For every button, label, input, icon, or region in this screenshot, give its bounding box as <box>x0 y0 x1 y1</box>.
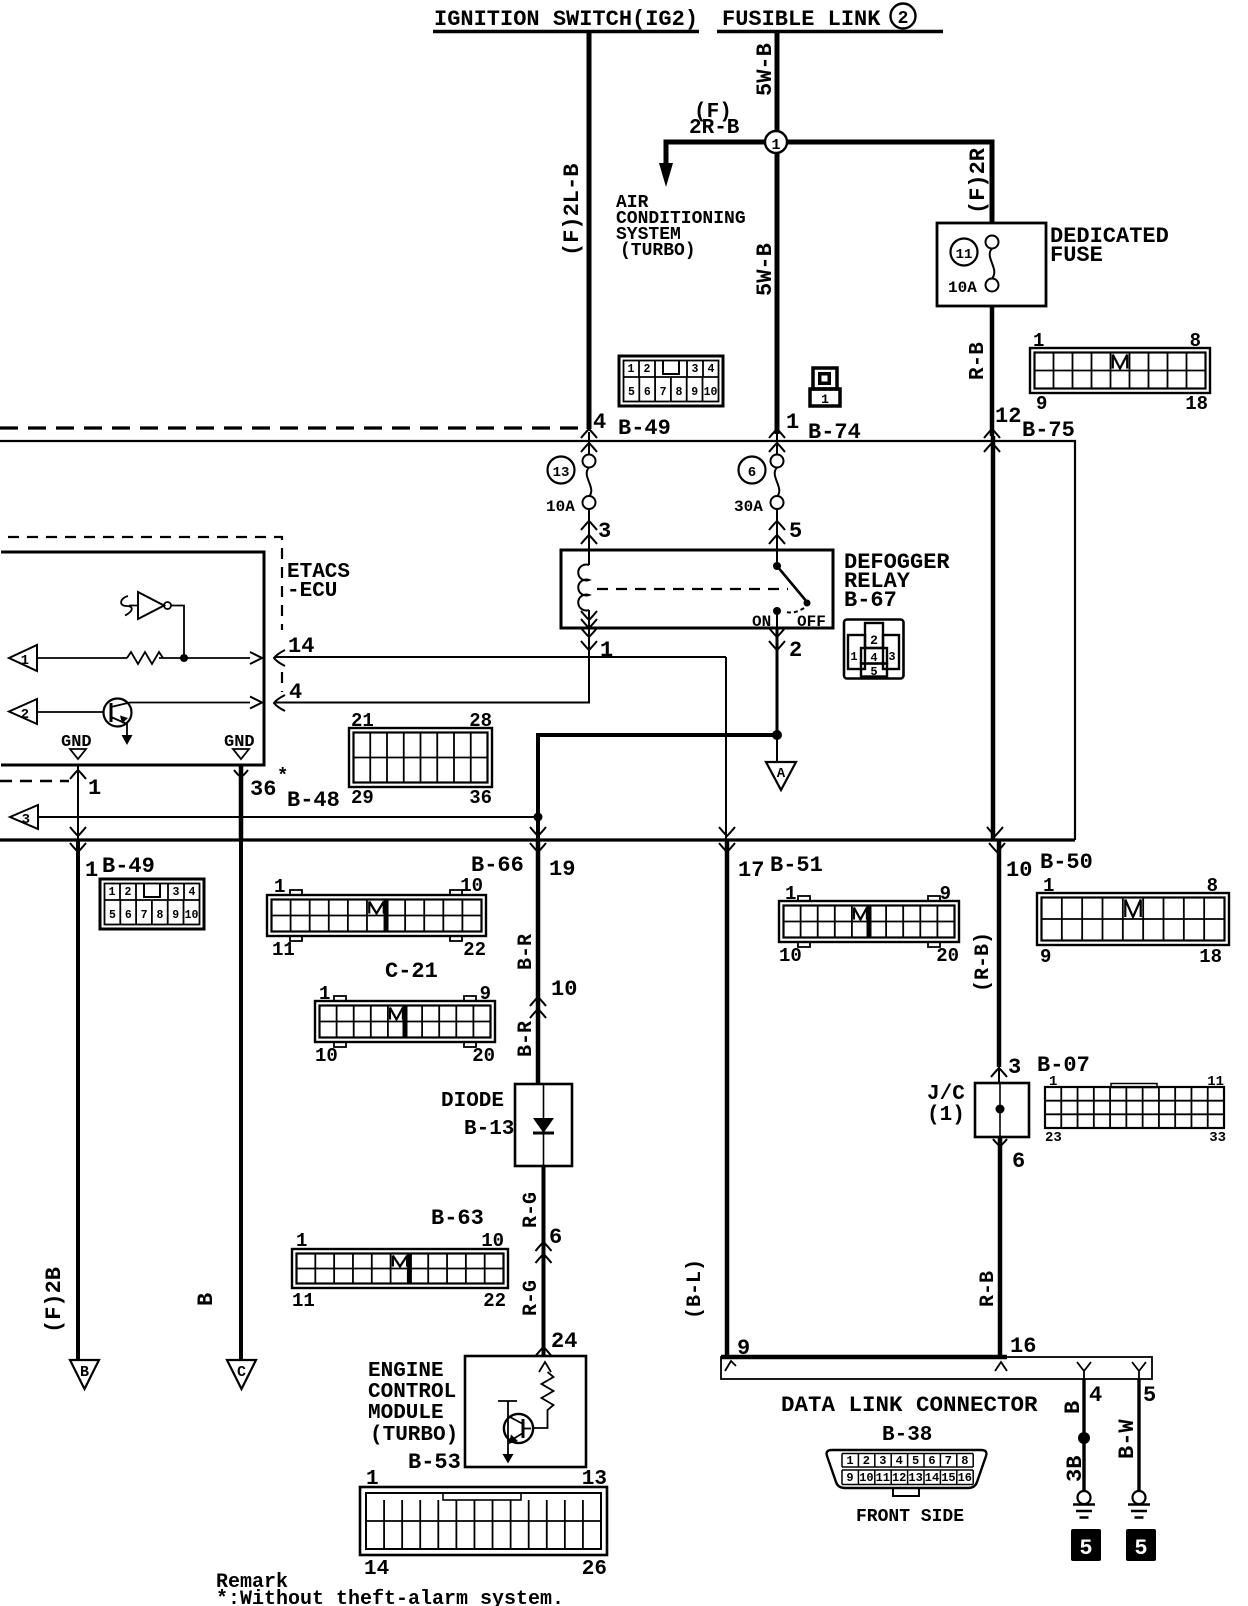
module ETACS-ECU box <box>1 552 264 765</box>
svg-text:5W-B: 5W-B <box>753 43 778 96</box>
ground GND right <box>224 733 255 759</box>
ground terminal circle right <box>1133 1491 1146 1504</box>
svg-text:2: 2 <box>898 9 909 29</box>
svg-text:2: 2 <box>863 1454 870 1468</box>
svg-text:5: 5 <box>628 386 635 399</box>
svg-text:10: 10 <box>859 1471 873 1485</box>
arrow up ETACS pin 1 <box>70 770 86 779</box>
svg-text:DIODE: DIODE <box>441 1090 504 1113</box>
svg-text:2: 2 <box>789 638 802 663</box>
svg-text:4: 4 <box>708 363 715 376</box>
junction dot relay pin2 <box>772 730 782 740</box>
diode B-13 box <box>515 1084 572 1166</box>
svg-text:14: 14 <box>364 1558 389 1581</box>
svg-text:B-51: B-51 <box>770 853 823 878</box>
svg-text:OFF: OFF <box>797 613 826 631</box>
svg-text:36: 36 <box>469 787 492 809</box>
resistor in ETACS <box>37 652 250 664</box>
wire from triangle 3 to junction <box>38 816 538 818</box>
svg-text:5W-B: 5W-B <box>753 243 778 296</box>
wire B-48 pin 36 down to C <box>239 840 243 1360</box>
wire R-G upper <box>542 1166 546 1356</box>
svg-text:R-G: R-G <box>520 1192 543 1228</box>
svg-text:7: 7 <box>141 909 148 922</box>
node triangle 3 input <box>10 805 38 829</box>
connector B-51 icon <box>779 896 959 947</box>
connector B-75 icon <box>1030 348 1210 393</box>
wire 5W-B below junction <box>775 153 780 434</box>
connector crossing pin 10 B-50 <box>987 436 1005 852</box>
svg-text:B-67: B-67 <box>844 588 897 613</box>
arrow into ECM <box>536 1347 552 1356</box>
label ETACS-ECU <box>287 561 350 603</box>
connector B-63 icon <box>292 1249 508 1288</box>
svg-text:-ECU: -ECU <box>287 580 337 603</box>
svg-text:B-13: B-13 <box>464 1118 514 1141</box>
svg-text:17: 17 <box>738 858 764 883</box>
wire 2R branch to dedicated fuse <box>787 142 992 223</box>
connector crossing pin 17 B-51 <box>719 827 735 852</box>
connector crossing pin 1 B-49 lower <box>70 827 86 852</box>
pin labels B-48 <box>351 710 492 809</box>
svg-text:DATA LINK CONNECTOR: DATA LINK CONNECTOR <box>781 1392 1038 1418</box>
svg-text:J/C: J/C <box>927 1083 965 1106</box>
svg-text:B: B <box>1061 1401 1086 1414</box>
node triangle B <box>70 1360 99 1389</box>
svg-text:(1): (1) <box>927 1104 965 1127</box>
node triangle 2 input <box>9 699 37 724</box>
svg-text:10: 10 <box>460 875 483 897</box>
svg-text:2: 2 <box>644 363 651 376</box>
wire 4 from ETACS to relay pin 1 <box>275 702 590 704</box>
wire long horizontal connector line upper <box>0 441 1075 840</box>
svg-text:1: 1 <box>85 858 98 883</box>
svg-text:(F)2B: (F)2B <box>42 1267 67 1333</box>
open arrow output 4 <box>250 697 262 709</box>
node triangle C <box>227 1360 256 1389</box>
pin labels B-63 <box>292 1230 506 1312</box>
pin labels B-66 <box>272 875 486 961</box>
svg-text:5: 5 <box>912 1454 919 1468</box>
svg-text:A: A <box>777 766 786 782</box>
connector crossing pin 19 B-66 <box>530 735 546 852</box>
junction dot ground wire <box>1078 1432 1090 1444</box>
pin labels B-53 <box>364 1468 607 1581</box>
svg-text:FRONT SIDE: FRONT SIDE <box>856 1507 964 1527</box>
svg-text:1: 1 <box>786 410 799 435</box>
connector crossing pin 10 C-21 <box>530 997 546 1018</box>
svg-text:23: 23 <box>1045 1130 1062 1146</box>
wire (R-B) to junction connector <box>997 840 1002 1067</box>
svg-text:19: 19 <box>549 857 575 882</box>
wire pin 14 net down at 726 <box>725 657 727 840</box>
wire ETACS pin 1 to connector <box>77 765 79 840</box>
svg-text:4: 4 <box>289 680 302 705</box>
connector crossing pin 3 relay <box>581 521 597 544</box>
wire ignition switch underline <box>433 30 699 34</box>
ground reference 5 left <box>1071 1529 1101 1561</box>
ground terminal circle left <box>1078 1491 1091 1504</box>
svg-text:11: 11 <box>876 1471 890 1485</box>
svg-text:B-38: B-38 <box>882 1424 932 1447</box>
svg-text:13: 13 <box>582 1468 607 1491</box>
svg-text:13: 13 <box>908 1471 922 1485</box>
svg-text:14: 14 <box>925 1471 939 1485</box>
pin labels B-07 <box>1045 1074 1226 1146</box>
svg-text:FUSIBLE LINK: FUSIBLE LINK <box>722 7 881 32</box>
fuse 6 30A <box>734 455 784 517</box>
svg-text:B-07: B-07 <box>1037 1053 1090 1078</box>
svg-text:6: 6 <box>748 465 756 481</box>
svg-text:B-63: B-63 <box>431 1206 484 1231</box>
open arrow output 14 <box>250 652 262 664</box>
svg-text:(R-B): (R-B) <box>972 932 995 992</box>
svg-text:10: 10 <box>779 945 802 967</box>
wire R-B to data link 16 <box>998 1137 1003 1357</box>
label DEDICATED FUSE <box>1050 224 1169 268</box>
svg-text:(B-L): (B-L) <box>684 1259 707 1319</box>
svg-text:B-50: B-50 <box>1040 850 1093 875</box>
svg-text:18: 18 <box>1185 393 1208 415</box>
connector crossing relay pin 1 <box>581 628 597 703</box>
svg-text:14: 14 <box>288 634 314 659</box>
svg-text:1: 1 <box>785 883 796 905</box>
svg-text:24: 24 <box>551 1329 577 1354</box>
node FUSIBLE LINK title <box>722 4 916 33</box>
wire relay pin2 to ground bus <box>538 735 777 840</box>
svg-text:B-74: B-74 <box>808 420 861 445</box>
wire fusible link underline <box>717 30 943 34</box>
svg-text:12: 12 <box>892 1471 906 1485</box>
connector B-74 icon <box>810 368 840 407</box>
wire 5W-B fusible link feed upper <box>775 33 780 131</box>
label Remark note <box>216 1571 564 1606</box>
svg-text:22: 22 <box>483 1290 506 1312</box>
svg-text:B-53: B-53 <box>408 1450 461 1475</box>
node triangle 1 input <box>9 645 37 671</box>
label J/C (1) <box>927 1083 965 1127</box>
node AIR CONDITIONING SYSTEM (TURBO) <box>616 193 746 261</box>
wire 14 from ETACS to data link branch <box>275 656 726 658</box>
wire fuse 6 to relay pin 5 <box>776 509 778 550</box>
wire to ground A <box>776 735 778 762</box>
svg-text:8: 8 <box>1207 875 1218 897</box>
svg-text:18: 18 <box>1199 946 1222 968</box>
pin labels C-21 <box>315 983 495 1067</box>
ground reference 5 right <box>1126 1529 1156 1561</box>
svg-text:5: 5 <box>789 519 802 544</box>
svg-text:6: 6 <box>1012 1149 1025 1174</box>
resistor and transistor inside ECM <box>498 1362 554 1464</box>
buffer gate with oscillator input <box>121 592 184 654</box>
svg-text:9: 9 <box>940 883 951 905</box>
connector crossing pin 12 B-75 <box>984 429 1000 452</box>
junction connector J/C (1) box <box>975 1083 1029 1137</box>
svg-text:12: 12 <box>995 404 1021 429</box>
pin labels B-50 <box>1040 875 1222 968</box>
svg-text:16: 16 <box>958 1471 972 1485</box>
svg-text:1: 1 <box>850 650 857 664</box>
wire B ground pin 4 <box>1082 1379 1085 1491</box>
svg-text:10: 10 <box>1006 858 1032 883</box>
svg-text:3: 3 <box>888 650 895 664</box>
entry arrow 14 <box>274 650 285 666</box>
svg-text:9: 9 <box>172 909 179 922</box>
connector B-67 icon <box>844 620 904 680</box>
connector crossing pin 1 B-74 <box>769 429 785 455</box>
svg-text:3: 3 <box>22 812 30 828</box>
pin labels B-51 <box>779 883 959 967</box>
svg-text:22: 22 <box>463 939 486 961</box>
svg-text:B: B <box>194 1293 219 1306</box>
svg-text:6: 6 <box>928 1454 935 1468</box>
relay internal dashed link <box>597 588 788 590</box>
svg-text:21: 21 <box>351 710 374 732</box>
relay defogger relay box B-67 <box>561 550 833 628</box>
svg-text:11: 11 <box>272 939 295 961</box>
svg-text:1: 1 <box>1043 875 1054 897</box>
svg-text:1: 1 <box>296 1230 307 1252</box>
wire B-W ground pin 5 <box>1137 1379 1140 1491</box>
ground GND left <box>61 733 92 759</box>
svg-text:4: 4 <box>896 1454 903 1468</box>
svg-text:B-R: B-R <box>515 934 538 970</box>
svg-text:6: 6 <box>125 909 132 922</box>
arrow Y below J/C pin 6 <box>993 1139 1007 1153</box>
svg-text:B: B <box>80 1364 89 1381</box>
svg-text:1: 1 <box>366 1468 379 1491</box>
connector B-50 icon <box>1037 893 1229 945</box>
svg-text:9: 9 <box>691 386 698 399</box>
svg-text:8: 8 <box>961 1454 968 1468</box>
svg-text:(F)2L-B: (F)2L-B <box>560 164 585 256</box>
module engine control module box B-53 <box>465 1356 586 1467</box>
transistor in ETACS <box>37 699 250 746</box>
svg-text:MODULE: MODULE <box>368 1402 444 1425</box>
svg-text:1: 1 <box>600 638 613 663</box>
svg-text:33: 33 <box>1209 1130 1226 1146</box>
svg-text:2R-B: 2R-B <box>689 117 740 140</box>
ground symbol right <box>1128 1505 1150 1518</box>
svg-text:2: 2 <box>870 633 878 648</box>
svg-text:10A: 10A <box>546 498 575 516</box>
label DIODE B-13 <box>441 1090 514 1141</box>
svg-text:9: 9 <box>1040 946 1051 968</box>
connector B-49 icon lower <box>100 879 204 929</box>
svg-text:C: C <box>237 1364 246 1381</box>
svg-text:6: 6 <box>549 1225 562 1250</box>
connector crossing pin 6 B-63 <box>536 1242 552 1263</box>
ground symbol left <box>1073 1505 1095 1518</box>
wire dashed stub left of pin 1 <box>0 780 69 783</box>
svg-text:1: 1 <box>1049 1074 1057 1090</box>
junction dot gate-resistor <box>180 654 188 662</box>
svg-text:20: 20 <box>472 1045 495 1067</box>
pin 36 label ETACS <box>250 765 288 802</box>
svg-text:8: 8 <box>675 386 682 399</box>
svg-text:B-49: B-49 <box>618 416 671 441</box>
connector B-07 icon <box>1045 1084 1224 1129</box>
svg-text:ON: ON <box>752 613 771 631</box>
connector crossing pin 3 J/C <box>991 1067 1007 1083</box>
connector B-38 icon <box>827 1450 987 1496</box>
label DEFOGGER RELAY B-67 <box>844 550 950 613</box>
svg-text:1: 1 <box>1033 330 1044 352</box>
svg-text:5: 5 <box>1143 1383 1156 1408</box>
svg-text:1: 1 <box>274 876 285 898</box>
wire long horizontal connector line lower <box>0 838 1075 841</box>
svg-text:B-49: B-49 <box>102 854 155 879</box>
svg-text:2: 2 <box>125 886 132 899</box>
wire dashed harness boundary upper left <box>0 426 588 429</box>
svg-text:1: 1 <box>109 886 116 899</box>
svg-text:3B: 3B <box>1063 1456 1088 1482</box>
connector data link connector bar <box>721 1357 1152 1379</box>
wire B-R upper <box>536 840 541 1084</box>
svg-text:4: 4 <box>593 410 606 435</box>
svg-text:IGNITION SWITCH(IG2): IGNITION SWITCH(IG2) <box>434 7 698 32</box>
junction dot wire 3 <box>534 813 543 822</box>
svg-text:CONTROL: CONTROL <box>368 1381 456 1404</box>
relay switch contacts ON OFF <box>752 550 826 631</box>
svg-text:1: 1 <box>628 363 635 376</box>
svg-text:28: 28 <box>469 710 492 732</box>
svg-text:7: 7 <box>660 386 667 399</box>
svg-text:3: 3 <box>692 363 699 376</box>
svg-text:1: 1 <box>771 137 780 154</box>
connector crossing pin 4 B-49 <box>581 429 597 455</box>
svg-text:2: 2 <box>21 707 29 723</box>
svg-text:B-R: B-R <box>515 1021 538 1057</box>
svg-text:10: 10 <box>481 1230 504 1252</box>
svg-text:29: 29 <box>351 787 374 809</box>
junction circle 1 <box>765 131 787 154</box>
relay coil <box>578 550 597 628</box>
svg-text:B-48: B-48 <box>287 788 340 813</box>
svg-text:R-B: R-B <box>977 1271 1000 1307</box>
svg-text:11: 11 <box>1207 1074 1224 1090</box>
svg-text:1: 1 <box>319 983 330 1005</box>
svg-text:1: 1 <box>821 392 829 407</box>
connector B-66 icon <box>267 890 486 941</box>
svg-text:10A: 10A <box>948 279 977 297</box>
svg-text:3: 3 <box>879 1454 886 1468</box>
svg-text:*:Without theft-alarm system.: *:Without theft-alarm system. <box>216 1588 564 1606</box>
svg-text:(F)2R: (F)2R <box>966 147 991 214</box>
fuse dedicated fuse 11 10A box <box>937 223 1046 306</box>
connector B-49 icon top <box>619 356 723 406</box>
svg-text:3: 3 <box>598 519 611 544</box>
svg-text:B-75: B-75 <box>1022 418 1075 443</box>
connector crossing pin 5 relay <box>769 521 785 544</box>
svg-text:FUSE: FUSE <box>1050 243 1103 268</box>
svg-text:9: 9 <box>480 983 491 1005</box>
svg-text:30A: 30A <box>734 498 763 516</box>
svg-text:16: 16 <box>1010 1334 1036 1359</box>
arrow to air conditioning system <box>659 163 673 187</box>
wire ETACS pin 36 heavy <box>239 765 244 840</box>
label ENGINE CONTROL MODULE (TURBO) <box>368 1360 458 1447</box>
svg-text:1: 1 <box>21 653 29 669</box>
ground A triangle <box>766 762 796 790</box>
svg-text:7: 7 <box>945 1454 952 1468</box>
pin labels B-75 <box>1033 330 1208 415</box>
svg-text:10: 10 <box>315 1045 338 1067</box>
svg-text:9: 9 <box>846 1471 853 1485</box>
svg-text:11: 11 <box>292 1290 315 1312</box>
connector C-21 icon <box>315 996 495 1047</box>
wire 2R-B branch to air conditioning <box>666 142 765 164</box>
connector B-48 icon <box>349 728 492 787</box>
svg-text:4: 4 <box>189 886 196 899</box>
svg-text:13: 13 <box>553 465 570 481</box>
svg-text:4: 4 <box>1089 1383 1102 1408</box>
svg-text:15: 15 <box>941 1471 955 1485</box>
svg-text:1: 1 <box>846 1454 853 1468</box>
svg-text:(TURBO): (TURBO) <box>370 1424 458 1447</box>
svg-text:(TURBO): (TURBO) <box>620 241 696 261</box>
svg-text:5: 5 <box>109 909 116 922</box>
connector crossing relay pin 2 <box>769 628 785 735</box>
svg-text:5: 5 <box>1134 1536 1147 1561</box>
svg-text:10: 10 <box>551 977 577 1002</box>
svg-text:8: 8 <box>156 909 163 922</box>
wire (F)2L-B ignition feed <box>587 33 592 429</box>
svg-text:8: 8 <box>1190 330 1201 352</box>
connector B-53 icon <box>360 1487 607 1555</box>
svg-text:9: 9 <box>1036 393 1047 415</box>
svg-text:36: 36 <box>250 777 276 802</box>
label (F) 2R-B <box>689 101 740 140</box>
entry arrow 4 <box>274 695 285 711</box>
svg-text:1: 1 <box>88 776 101 801</box>
svg-text:5: 5 <box>1079 1536 1092 1561</box>
svg-text:20: 20 <box>936 945 959 967</box>
svg-text:6: 6 <box>644 386 651 399</box>
arrow Y ETACS pin 36 <box>234 770 248 784</box>
svg-text:3: 3 <box>1008 1055 1021 1080</box>
svg-text:C-21: C-21 <box>385 959 438 984</box>
wire fuse 13 to relay pin 3 <box>588 509 590 550</box>
svg-text:5: 5 <box>870 665 877 679</box>
module ETACS-ECU dashed outline <box>8 537 282 692</box>
svg-text:26: 26 <box>582 1558 607 1581</box>
svg-text:10: 10 <box>704 386 718 399</box>
svg-text:11: 11 <box>956 247 973 263</box>
svg-text:ENGINE: ENGINE <box>368 1360 444 1383</box>
svg-text:*: * <box>277 765 288 787</box>
svg-text:B-W: B-W <box>1115 1419 1140 1459</box>
wire B-L down to data link <box>725 840 730 1357</box>
wire R-B from dedicated fuse <box>990 306 995 436</box>
wire (F)2B down to B <box>76 840 80 1360</box>
svg-text:3: 3 <box>173 886 180 899</box>
svg-text:10: 10 <box>185 909 199 922</box>
fuse 13 10A <box>546 455 596 517</box>
svg-text:R-G: R-G <box>520 1280 543 1316</box>
svg-text:R-B: R-B <box>967 342 990 380</box>
